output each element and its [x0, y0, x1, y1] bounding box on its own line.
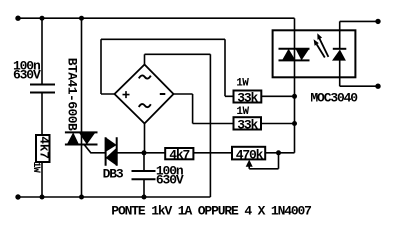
wire bridge left vertex to plus rail [101, 39, 234, 96]
svg-text:DB3: DB3 [103, 166, 124, 181]
svg-text:470k: 470k [236, 147, 264, 162]
opto triac bars [279, 49, 310, 61]
svg-text:33k: 33k [237, 117, 258, 132]
wire opto LED bottom lead [340, 60, 378, 86]
svg-text:BTA41-600B: BTA41-600B [64, 58, 79, 131]
svg-text:4k7: 4k7 [37, 136, 52, 159]
wire AC top run [145, 53, 211, 55]
wire 470k right lead [265, 152, 294, 154]
diac DB3 bars [106, 137, 117, 166]
opto triac triangles [282, 49, 296, 61]
svg-text:MOC3040: MOC3040 [310, 91, 358, 106]
trimmer arrow head [246, 160, 253, 167]
wire triac Q1 vertical [81, 18, 83, 197]
svg-text:1W: 1W [30, 162, 41, 173]
wire triac Q1 gate diagonal [84, 144, 106, 152]
wire 4k7 to 470k [193, 152, 232, 154]
capacitor C1 plates 100n 630V [30, 49, 346, 180]
bridge rectifier diamond [115, 65, 174, 124]
wire R5 to bottom rail [41, 162, 43, 197]
junction dot bus 33k R2 [292, 121, 297, 126]
svg-text:630V: 630V [156, 173, 184, 188]
svg-text:1W: 1W [236, 106, 249, 118]
terminal dot top right [375, 19, 380, 24]
terminal dot bottom right [375, 84, 380, 89]
wire C2 down [143, 153, 145, 197]
wire bottom rail [18, 196, 210, 198]
svg-text:4k7: 4k7 [169, 147, 189, 162]
terminal dot bottom left [15, 194, 20, 199]
svg-text:33k: 33k [237, 90, 258, 105]
bridge tilde bottom [139, 104, 151, 107]
bridge minus sign [160, 93, 166, 95]
junction dot R5 bottom [40, 195, 45, 200]
svg-text:PONTE 1kV 1A OPPURE 4 X 1N4007: PONTE 1kV 1A OPPURE 4 X 1N4007 [111, 204, 311, 219]
wire C1 to R5 [41, 93, 43, 136]
capacitor C2 plates 100n 630V [132, 171, 156, 179]
light arrow 1 [314, 33, 329, 57]
bridge tilde top [139, 75, 151, 78]
terminal dot top left [15, 16, 20, 21]
junction dot gate row C2 [142, 150, 147, 155]
wire 33k R2 right lead [261, 123, 295, 125]
svg-text:1W: 1W [236, 78, 249, 90]
wire top rail [18, 17, 295, 19]
wire top rail drop to optocoupler [294, 18, 296, 153]
bridge plus sign [123, 91, 130, 98]
wire opto LED top lead [340, 21, 378, 48]
wire 33k R1 right lead [261, 95, 294, 97]
wire bridge right vertex to 33k row2 [174, 94, 234, 124]
wire gate row C2 to 4k7 [117, 152, 166, 154]
resistor R5 4k7 1W vertical box [36, 135, 50, 162]
junction dot C1 top [40, 16, 45, 21]
resistor R1 33k 1W box [234, 91, 262, 103]
resistor R3 470k trimmer box [232, 147, 265, 160]
opto LED triangle [332, 50, 346, 61]
optocoupler U1 box [273, 30, 356, 77]
LED cathode bar [333, 48, 347, 50]
junction dot Q1 bottom [79, 195, 84, 200]
wire bridge bottom to gate row [144, 124, 146, 153]
junction dot 470k wiper [276, 150, 281, 155]
triac Q1 bars [65, 132, 98, 144]
junction dot Q1 top [79, 16, 84, 21]
wire into bridge top [144, 54, 146, 64]
light arrow 2 [317, 44, 325, 57]
svg-text:630V: 630V [13, 68, 41, 83]
wire left branch down to C1 [41, 18, 43, 84]
wire trimmer wiper loop [249, 153, 278, 169]
diac DB3 triangles [106, 137, 117, 152]
resistor R4 4k7 box [165, 148, 193, 159]
junction dot C2 bottom [142, 195, 147, 200]
junction dot bus 33k R1 [292, 94, 297, 99]
wire bottom rail up to AC node [209, 54, 211, 197]
triac Q1 triangles [67, 132, 79, 144]
resistor R2 33k 1W box [234, 117, 262, 129]
